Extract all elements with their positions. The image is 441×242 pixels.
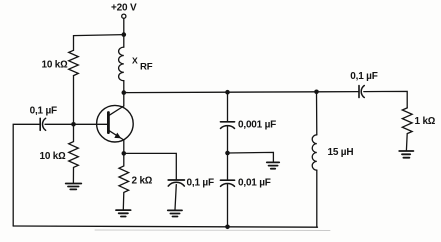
junction dot emitter node	[122, 151, 127, 156]
svg-text:1 kΩ: 1 kΩ	[415, 116, 436, 127]
resistor R3 2 kOhm emitter	[119, 153, 129, 209]
svg-text:10 kΩ: 10 kΩ	[42, 59, 69, 70]
wire C4 to bottom rail	[227, 185, 229, 227]
junction dot supply node	[122, 32, 127, 37]
resistor R4 1 kOhm load	[402, 108, 412, 151]
ground under R4	[399, 151, 413, 158]
wire bottom rail shadow artifact	[95, 229, 330, 232]
junction dot collector node	[122, 90, 127, 95]
ground mid	[267, 162, 279, 168]
junction dot bottom rail	[225, 225, 230, 230]
svg-text:0,1 µF: 0,1 µF	[187, 177, 214, 188]
wire input left lead	[13, 124, 40, 226]
capacitor C1 0,1 uF input coupling	[40, 118, 45, 130]
wire supply node left to R1 top	[74, 35, 124, 51]
wire input cap to base node	[45, 123, 74, 125]
transistor Q1	[97, 93, 134, 154]
capacitor C4 0,01 uF	[221, 180, 235, 186]
wire C3 to mid node	[227, 127, 229, 181]
ground under C2	[168, 210, 182, 216]
capacitor C3 0,001 uF	[221, 122, 235, 129]
junction dot base node	[71, 122, 76, 127]
resistor R1 10 kOhm (upper bias)	[69, 50, 79, 75]
wire XRF bottom to collector node	[123, 81, 125, 93]
capacitor C2 0,1 uF emitter bypass	[168, 180, 184, 210]
wire emitter node to bypass cap	[124, 153, 177, 179]
svg-text:0,1 µF: 0,1 µF	[30, 105, 57, 116]
wire bottom rail	[13, 226, 316, 227]
wire tank branch down	[316, 92, 318, 135]
wire base node to transistor base	[74, 123, 109, 125]
wire L1 to bottom rail	[316, 170, 319, 227]
resistor R2 10 kOhm (lower bias)	[69, 124, 79, 183]
wire output cap to R4	[364, 91, 407, 108]
junction dot tank branch	[314, 90, 319, 95]
capacitor C5 0,1 uF output coupling	[359, 86, 364, 98]
node +20 V supply terminal	[122, 14, 126, 18]
junction dot mid node	[225, 151, 230, 156]
svg-text:0,001 µF: 0,001 µF	[238, 119, 276, 130]
inductor L1 15 uH	[312, 135, 317, 170]
wire supply terminal down to junction	[123, 18, 125, 47]
wire collector bus to output	[124, 92, 359, 93]
svg-text:15 µH: 15 µH	[328, 147, 354, 158]
svg-text:0,01 µF: 0,01 µF	[238, 178, 271, 189]
svg-text:10 kΩ: 10 kΩ	[40, 151, 67, 162]
svg-text:RF: RF	[140, 62, 153, 73]
ground under R2	[66, 184, 82, 190]
wire R1 bottom to base node	[73, 76, 75, 125]
svg-text:X: X	[132, 55, 138, 65]
label XRF	[132, 55, 153, 72]
svg-text:2 kΩ: 2 kΩ	[132, 176, 153, 187]
svg-text:0,1 µF: 0,1 µF	[350, 71, 377, 82]
svg-text:+20 V: +20 V	[111, 2, 137, 13]
ground under R3	[116, 210, 131, 216]
wire mid node to ground stem	[228, 152, 274, 162]
inductor XRF RF choke	[119, 47, 124, 81]
wire bypass branch down	[227, 92, 229, 122]
junction dot bypass branch	[225, 90, 230, 95]
